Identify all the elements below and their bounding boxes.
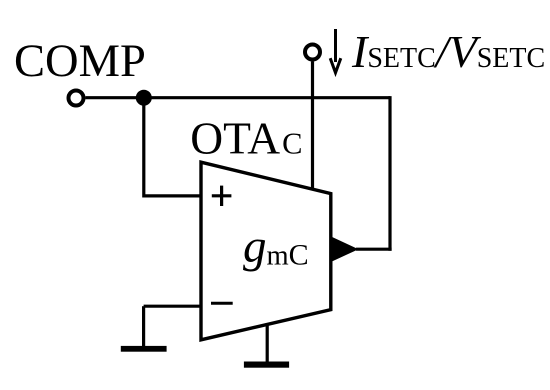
svg-text:COMP: COMP: [14, 36, 146, 87]
plus input marker: [212, 186, 232, 206]
current direction arrow (down): [330, 29, 341, 73]
op-amp OTA body (trapezoid): [201, 162, 331, 340]
wire minus input: [144, 305, 203, 308]
ground left: [121, 346, 167, 352]
wire right rail: [388, 96, 391, 251]
output arrow (filled): [331, 236, 359, 262]
terminal ISETC/VSETC (open circle): [305, 45, 320, 60]
wire top rail: [86, 96, 391, 99]
wire output horizontal: [356, 248, 392, 251]
wire ISETC terminal down to OTA top edge: [311, 62, 314, 191]
wire junction to plus input: [144, 98, 203, 196]
wire OTA bottom to ground: [266, 323, 269, 362]
minus input marker: [211, 302, 233, 305]
terminal COMP (open circle): [69, 91, 84, 106]
ground center: [244, 362, 289, 368]
wire minus down to ground: [142, 306, 145, 346]
junction dot: [136, 90, 152, 106]
